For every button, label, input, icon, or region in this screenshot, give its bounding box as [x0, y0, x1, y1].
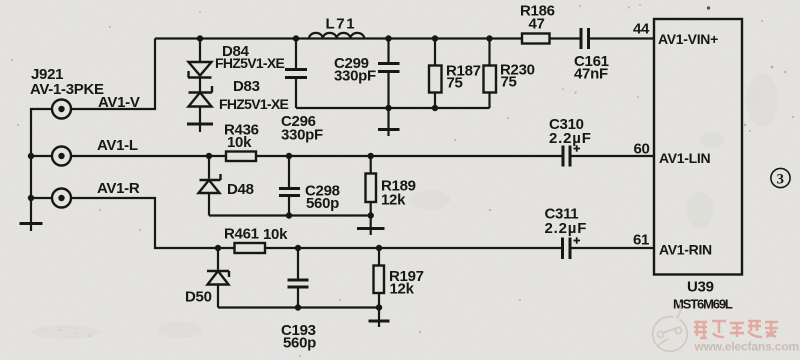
wire R436 to C310 [256, 155, 562, 157]
watermark text dianzifashaoyou [694, 321, 778, 338]
ground (below D83) [187, 124, 213, 132]
resistor R461 [235, 243, 266, 253]
svg-text:560p: 560p [306, 195, 339, 212]
junction top rail at R230 [486, 35, 492, 41]
svg-text:MST6M69L: MST6M69L [673, 297, 733, 312]
wire AV1-R jack to line [71, 198, 235, 248]
sheet number 3 circled [771, 168, 790, 187]
junction bottom rail at C299 [385, 105, 391, 111]
svg-text:2.2µF: 2.2µF [545, 220, 588, 237]
svg-text:D48: D48 [227, 181, 254, 198]
junction bottom line at R189 [368, 212, 374, 218]
svg-text:10k: 10k [263, 226, 288, 243]
svg-text:75: 75 [501, 74, 517, 91]
wire AV1-V jack to top rail [71, 39, 155, 110]
junction bottom line at C298 [286, 212, 292, 218]
wire R186 to C161 [550, 37, 580, 39]
ground (connector bus) [20, 224, 43, 232]
svg-text:AV1-RIN: AV1-RIN [659, 242, 712, 258]
junction bottom line at C193 [295, 304, 301, 310]
capacitor C193 [288, 248, 309, 308]
capacitor C298 [279, 156, 300, 216]
wire C310 to pin 60 [572, 155, 655, 157]
svg-text:FHZ5V1-XE: FHZ5V1-XE [215, 55, 285, 71]
svg-text:47: 47 [529, 16, 545, 33]
connector J921 label [30, 66, 104, 98]
svg-text:3: 3 [777, 172, 785, 188]
resistor R186 [522, 34, 550, 44]
svg-text:D83: D83 [233, 78, 260, 95]
resistor R436 [226, 152, 256, 162]
svg-text:12k: 12k [381, 192, 406, 209]
junction on bus at AV1-L [28, 153, 34, 159]
svg-text:44: 44 [633, 21, 650, 38]
junction AV1-R at C193 [295, 245, 301, 251]
wire AV1-L line (jack to R436) [71, 155, 226, 157]
junction top rail at R187 [432, 35, 438, 41]
junction bottom line at R197 [376, 304, 382, 310]
inductor L71 [309, 33, 364, 39]
svg-text:L71: L71 [326, 16, 357, 33]
resistor R189 [366, 156, 377, 216]
ground (video filter) [378, 108, 400, 136]
junction AV1-R at D50 [215, 245, 221, 251]
svg-text:AV-1-3PKE: AV-1-3PKE [30, 81, 104, 98]
resistor R197 [374, 248, 385, 308]
svg-text:560p: 560p [283, 335, 316, 352]
junction top rail at C299 [385, 35, 391, 41]
ground (below R189) [357, 216, 385, 236]
zener diode D48 [199, 156, 221, 216]
capacitor C299 [378, 39, 400, 109]
watermark logo elecfans [653, 303, 688, 352]
wire connector ground bus [31, 109, 52, 222]
polarity + (C310) [574, 145, 581, 151]
jack AV1-R [52, 189, 71, 208]
svg-text:12k: 12k [390, 281, 415, 298]
svg-text:330pF: 330pF [281, 127, 323, 144]
wire R461 to C311 [265, 247, 561, 249]
svg-text:AV1-VIN+: AV1-VIN+ [658, 31, 718, 47]
junction AV1-L at D48 [206, 153, 212, 159]
wire top rail [155, 37, 522, 39]
svg-text:AV1-L: AV1-L [97, 137, 138, 154]
capacitor C311 [563, 238, 571, 260]
capacitor C161 [581, 28, 589, 49]
svg-text:60: 60 [634, 141, 650, 158]
svg-text:R461: R461 [224, 226, 259, 243]
svg-text:FHZ5V1-XE: FHZ5V1-XE [219, 96, 289, 112]
svg-text:D50: D50 [185, 289, 212, 306]
junction bottom rail at R187 [432, 105, 438, 111]
svg-text:61: 61 [633, 232, 649, 249]
junction top rail at D84 [197, 35, 203, 41]
svg-text:U39: U39 [687, 279, 714, 296]
svg-text:75: 75 [447, 75, 463, 92]
polarity + (C311) [574, 237, 581, 243]
capacitor C310 [563, 146, 570, 167]
svg-text:10k: 10k [227, 134, 252, 151]
jack AV1-V [52, 100, 71, 119]
wire C161 to pin 44 [590, 37, 654, 39]
junction AV1-L at R189 [368, 153, 374, 159]
svg-text:AV1-LIN: AV1-LIN [659, 150, 710, 166]
capacitor C296 [285, 39, 307, 109]
wire video filter bottom rail [296, 107, 490, 109]
wire C311 to pin 61 [572, 247, 655, 249]
svg-text:www.elecfans.com: www.elecfans.com [694, 340, 800, 354]
ground (below R197) [369, 308, 390, 328]
junction on bus at AV1-R [28, 195, 34, 201]
wire AV1-L clamp bottom line [209, 214, 371, 216]
wire AV1-R clamp bottom line [218, 306, 379, 308]
junction AV1-R at R197 [376, 245, 382, 251]
zener diode D84 [188, 39, 212, 78]
svg-text:2.2µF: 2.2µF [549, 130, 592, 147]
jack AV1-L [52, 147, 71, 166]
svg-text:AV1-R: AV1-R [97, 180, 140, 197]
svg-text:47nF: 47nF [574, 66, 608, 83]
svg-text:330pF: 330pF [334, 68, 376, 85]
junction AV1-L at C298 [286, 153, 292, 159]
zener diode D50 [207, 248, 229, 308]
zener diode D83 [189, 78, 213, 123]
IC U39 box [654, 19, 742, 275]
resistor R230 [484, 39, 497, 109]
resistor R187 [429, 39, 442, 109]
junction top rail at C296 [293, 35, 299, 41]
